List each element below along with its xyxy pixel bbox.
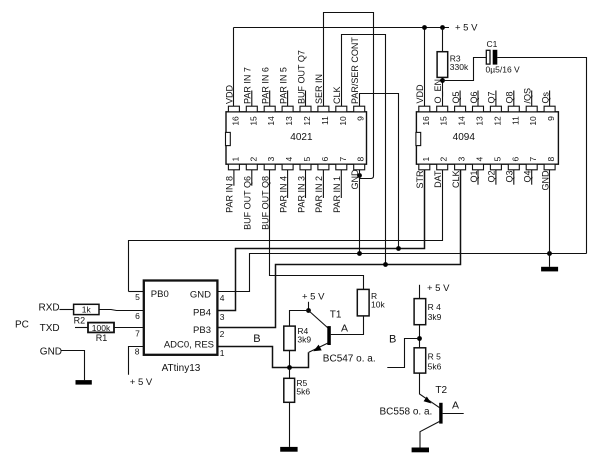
wire R5 to T2 emitter — [420, 373, 440, 408]
svg-text:10k: 10k — [371, 300, 385, 310]
svg-text:5k6: 5k6 — [296, 387, 310, 397]
wire stub pin 7 — [340, 170, 342, 198]
svg-text:R1: R1 — [96, 333, 108, 343]
svg-text:Q7: Q7 — [487, 91, 497, 103]
svg-text:7: 7 — [135, 329, 140, 339]
junction dot R4/R5/B rail — [287, 365, 292, 370]
transistor T1 base bar — [327, 326, 331, 345]
resistor R5 5k6 (T2) — [414, 348, 426, 373]
wire ATtiny pin 8 to +5V — [129, 347, 144, 375]
pin 13 box (4021 PAR IN 5) — [282, 106, 293, 112]
wire 4021 PAR/SER CONT to strobe rail — [360, 94, 399, 249]
svg-text:PAR IN 5: PAR IN 5 — [278, 67, 288, 104]
transistor Q1 T1 BC547: collector diagonal — [309, 311, 329, 329]
wire stub pin 2 — [251, 170, 253, 186]
svg-text:8: 8 — [135, 346, 140, 356]
wire R4 to B rail — [289, 351, 291, 368]
pin 11 box (4021 SER IN) — [318, 106, 329, 112]
svg-text:10: 10 — [528, 116, 538, 126]
svg-text:1k: 1k — [82, 304, 92, 314]
IC 4021 body — [226, 112, 367, 164]
wire RXD to R2 — [60, 309, 74, 311]
svg-text:BUF OUT Q6: BUF OUT Q6 — [243, 176, 253, 230]
wire stub pin 6 — [322, 170, 324, 198]
svg-text:9: 9 — [356, 116, 366, 121]
ground symbol T1 — [280, 447, 297, 452]
wire SER IN loop to GND — [324, 13, 374, 179]
svg-text:/QS: /QS — [523, 88, 533, 104]
svg-text:+ 5 V: + 5 V — [302, 291, 325, 302]
svg-text:Q1: Q1 — [469, 171, 479, 183]
svg-text:PB0: PB0 — [151, 289, 169, 300]
pin 2 box (4094 DAT) — [437, 164, 448, 170]
transistor T2 base bar — [439, 403, 442, 424]
svg-text:1: 1 — [220, 348, 225, 358]
svg-text:TXD: TXD — [40, 323, 60, 334]
svg-text:1: 1 — [421, 157, 431, 162]
svg-text:7: 7 — [338, 157, 348, 162]
svg-text:STR: STR — [415, 170, 425, 189]
wire ATtiny pin 1 ADC0 to node B rail — [217, 347, 308, 368]
resistor R4 3k9 (T1) — [284, 326, 295, 350]
wire stub pin 9 — [549, 91, 551, 107]
svg-text:T1: T1 — [330, 310, 342, 321]
svg-text:C1: C1 — [487, 39, 498, 49]
svg-text:PAR IN 1: PAR IN 1 — [332, 176, 342, 213]
junction dot 4094 GND at ground rail — [547, 251, 552, 256]
wire GND to ground — [61, 351, 85, 381]
junction dot SER IN at 4021 GND — [357, 173, 362, 178]
wire stub pin 5 — [495, 170, 497, 185]
svg-text:PAR IN 4: PAR IN 4 — [278, 176, 288, 213]
wire stub pin 1 — [233, 170, 235, 186]
svg-text:+ 5 V: + 5 V — [455, 22, 478, 33]
svg-text:12: 12 — [302, 116, 312, 126]
pin 9 box (4021 PAR/SER CONT) — [354, 106, 365, 112]
transistor T1 emitter arrow — [313, 345, 321, 352]
svg-text:BUF OUT Q7: BUF OUT Q7 — [296, 50, 306, 104]
svg-text:PAR IN 7: PAR IN 7 — [243, 67, 253, 104]
svg-text:4094: 4094 — [453, 132, 476, 143]
wire R5 to ground — [289, 402, 291, 447]
svg-text:Q6: Q6 — [469, 91, 479, 103]
svg-text:ADC0, RES: ADC0, RES — [164, 340, 214, 351]
pin 15 box (4021 PAR IN 7) — [246, 106, 257, 112]
IC 4094 notch — [416, 132, 421, 145]
svg-text:11: 11 — [510, 116, 520, 125]
svg-text:RXD: RXD — [39, 303, 60, 314]
pin 16 box (4021 VDD) — [228, 106, 239, 112]
svg-text:R2: R2 — [74, 315, 86, 325]
wire stub pin 7 — [531, 170, 533, 185]
pin 7 box (4021 PAR IN 1) — [336, 164, 347, 170]
svg-text:8: 8 — [546, 157, 556, 162]
resistor R5 5k6 (T1) — [289, 368, 291, 379]
junction dot T1 collector / R4 — [306, 308, 311, 313]
ground symbol 4094 — [541, 267, 558, 272]
svg-text:T2: T2 — [435, 385, 447, 396]
pin 2 box (4021 BUF OUT Q6) — [246, 164, 257, 170]
wire stub pin 12 — [495, 91, 497, 107]
capacitor C1 right plate (polarized) — [493, 50, 498, 65]
resistor R 10k — [357, 289, 369, 316]
svg-text:5: 5 — [302, 157, 312, 162]
wire R3 to O_EN pin 15 — [442, 77, 444, 106]
svg-text:3k9: 3k9 — [428, 312, 442, 322]
wire stub pin 12 — [305, 91, 307, 107]
transistor T1 emitter diagonal — [309, 343, 328, 352]
svg-text:CLK: CLK — [451, 171, 461, 189]
svg-text:VDD: VDD — [415, 84, 425, 104]
wire ground rail ATtiny GND to 4094 GND — [217, 254, 586, 292]
svg-text:A: A — [341, 323, 348, 335]
svg-text:10: 10 — [338, 116, 348, 126]
wire 4021 BUF OUT Q8 pin 3 down — [270, 170, 364, 290]
svg-text:7: 7 — [528, 157, 538, 162]
svg-text:14: 14 — [457, 116, 467, 126]
svg-text:11: 11 — [320, 116, 330, 125]
wire stub pin 14 — [269, 91, 271, 107]
svg-text:8: 8 — [356, 157, 366, 162]
pin 10 box (4094 /QS) — [526, 106, 537, 112]
junction dot 4021 GND at ground rail — [357, 251, 362, 256]
svg-text:6: 6 — [320, 157, 330, 162]
IC 4094 body — [416, 112, 558, 164]
pin 16 box (4094 VDD) — [419, 106, 430, 112]
junction dot R3 bottom / O_EN / C1 — [440, 78, 445, 83]
svg-text:13: 13 — [284, 116, 294, 126]
svg-text:Qs: Qs — [540, 91, 550, 103]
ground symbol T2 — [412, 448, 429, 453]
svg-text:BC558 o. a.: BC558 o. a. — [380, 407, 433, 418]
pin 14 box (4094 Q5) — [455, 106, 466, 112]
wire stub pin 10 — [531, 91, 533, 107]
wire strobe rail PB4 to PAR/SER CONT and 4094 STR — [217, 170, 424, 311]
svg-text:13: 13 — [475, 116, 485, 126]
svg-text:GND: GND — [190, 290, 211, 301]
svg-text:GND: GND — [540, 170, 550, 191]
svg-text:6: 6 — [135, 311, 140, 321]
svg-text:Q4: Q4 — [523, 171, 533, 183]
svg-text:15: 15 — [248, 116, 258, 126]
resistor R4 3k9 (T2) — [414, 299, 426, 325]
svg-text:6: 6 — [510, 157, 520, 162]
wire 4021 VDD to +5V — [233, 28, 235, 107]
svg-text:4: 4 — [475, 157, 485, 162]
svg-text:3k9: 3k9 — [297, 334, 311, 344]
wire R3 junction to C1 left plate — [443, 58, 487, 81]
pin 14 box (4021 PAR IN 6) — [264, 106, 275, 112]
svg-text:PC: PC — [15, 320, 29, 331]
svg-text:15: 15 — [439, 116, 449, 126]
svg-text:R 5: R 5 — [428, 351, 442, 361]
wire 4094 GND pin to ground — [549, 170, 551, 267]
svg-text:2: 2 — [220, 329, 225, 339]
svg-text:1: 1 — [230, 157, 240, 162]
wire +5V to R3 — [442, 28, 444, 52]
svg-text:0µ5/16 V: 0µ5/16 V — [486, 64, 521, 74]
svg-text:PAR/SER CONT: PAR/SER CONT — [350, 37, 360, 104]
svg-text:5: 5 — [492, 157, 502, 162]
junction dot node B (T2) — [417, 336, 422, 341]
pin 4 box (4021 PAR IN 4) — [282, 164, 293, 170]
wire 4021 GND down to ground rail — [359, 170, 361, 254]
pin 12 box (4094 Q7) — [490, 106, 501, 112]
wire stub pin 4 — [477, 170, 479, 185]
svg-text:CLK: CLK — [332, 86, 342, 104]
wire 4021 CLK to clock rail — [342, 35, 386, 265]
svg-text:100k: 100k — [92, 323, 111, 333]
svg-text:+ 5 V: + 5 V — [427, 283, 450, 294]
svg-text:ATtiny13: ATtiny13 — [162, 363, 201, 374]
transistor Q2 T2 BC558 emitter arrow — [424, 397, 432, 404]
svg-text:PAR IN 8: PAR IN 8 — [225, 176, 235, 213]
junction dot 4094 VDD at +5V rail — [422, 25, 427, 30]
microcontroller U3 ATtiny13 — [144, 281, 218, 355]
wire stub pin 13 — [477, 91, 479, 107]
IC 4021 notch — [226, 132, 231, 145]
pin 8 box (4094 GND) — [544, 164, 555, 170]
pin 15 box (4094 O_EN) — [437, 106, 448, 112]
junction dot strobe rail — [396, 246, 401, 251]
wire data rail PB0 to 4094 DAT — [129, 170, 443, 292]
svg-text:A: A — [452, 399, 459, 411]
svg-text:Q8: Q8 — [505, 91, 515, 103]
svg-text:B: B — [253, 333, 260, 345]
svg-text:GND: GND — [40, 347, 62, 358]
svg-text:330k: 330k — [450, 62, 469, 72]
svg-text:BC547 o. a.: BC547 o. a. — [323, 354, 376, 365]
resistor R2 1k — [74, 304, 99, 314]
svg-text:Q3: Q3 — [505, 171, 515, 183]
wire +5V rail top — [234, 27, 450, 29]
wire stub pin 15 — [251, 91, 253, 107]
wire stub pin 6 — [513, 170, 515, 185]
resistor R3 330k — [437, 52, 448, 78]
pin 7 box (4094 Q4) — [526, 164, 537, 170]
wire R4 to R5 junction (T2) — [419, 325, 421, 348]
svg-text:3: 3 — [220, 312, 225, 322]
pin 1 box (4021 PAR IN 8) — [228, 164, 239, 170]
wire +5V junction to R4 — [290, 311, 309, 327]
svg-text:PB4: PB4 — [193, 307, 211, 318]
wire TXD to R1 — [75, 327, 88, 329]
svg-text:PAR IN 6: PAR IN 6 — [261, 67, 271, 104]
svg-text:3: 3 — [457, 157, 467, 162]
pin 5 box (4094 Q2) — [490, 164, 501, 170]
svg-text:2: 2 — [439, 157, 449, 162]
wire +5V to T1 collector junction — [308, 302, 310, 311]
svg-text:5: 5 — [135, 292, 140, 302]
svg-text:2: 2 — [248, 157, 258, 162]
pin 6 box (4094 Q3) — [508, 164, 519, 170]
pin 3 box (4094 CLK) — [455, 164, 466, 170]
pin 4 box (4094 Q1) — [473, 164, 484, 170]
pin 10 box (4021 CLK) — [336, 106, 347, 112]
svg-text:Q2: Q2 — [487, 171, 497, 183]
svg-text:4021: 4021 — [290, 132, 313, 143]
pin 12 box (4021 BUF OUT Q7) — [300, 106, 311, 112]
svg-text:PAR IN 3: PAR IN 3 — [296, 176, 306, 213]
wire R1 to ATtiny pin 7 — [114, 327, 144, 329]
wire C1 right plate to ground rail — [497, 58, 586, 254]
wire node B stub (T2) — [387, 339, 419, 368]
svg-text:16: 16 — [230, 116, 240, 126]
wire clock rail PB3 to 4021 CLK and 4094 CLK — [217, 170, 460, 328]
pin 13 box (4094 Q6) — [473, 106, 484, 112]
pin 8 box (4021 GND) — [354, 164, 365, 170]
wire +5V to R4 (T2) — [419, 285, 421, 299]
wire R2 to ATtiny pin 6 — [99, 310, 144, 311]
junction dot R3 at +5V rail — [440, 25, 445, 30]
wire T2 base to node A — [443, 413, 464, 415]
wire stub pin 14 — [459, 91, 461, 107]
svg-text:16: 16 — [421, 116, 431, 126]
pin 5 box (4021 PAR IN 3) — [300, 164, 311, 170]
svg-text:9: 9 — [546, 116, 556, 121]
pin 11 box (4094 Q8) — [508, 106, 519, 112]
pin 3 box (4021 BUF OUT Q8) — [264, 164, 275, 170]
svg-text:5k6: 5k6 — [428, 361, 442, 371]
svg-text:R 4: R 4 — [428, 302, 442, 312]
svg-text:B: B — [389, 333, 396, 345]
svg-text:14: 14 — [266, 116, 276, 126]
wire R 10k to T1 base, node A — [331, 316, 364, 335]
wire stub pin 5 — [305, 170, 307, 198]
junction dot 4021 CLK at clock rail — [383, 262, 388, 267]
wire stub pin 4 — [287, 170, 289, 198]
svg-text:3: 3 — [266, 157, 276, 162]
svg-text:12: 12 — [492, 116, 502, 126]
svg-text:PB3: PB3 — [193, 325, 211, 336]
svg-text:+ 5 V: + 5 V — [130, 377, 153, 388]
svg-text:Q5: Q5 — [451, 91, 461, 103]
pin 9 box (4094 Qs) — [544, 106, 555, 112]
svg-text:4: 4 — [220, 293, 225, 303]
transistor T2 collector diagonal to ground — [420, 422, 439, 448]
svg-text:SER IN: SER IN — [314, 74, 324, 104]
svg-text:DAT: DAT — [433, 170, 443, 188]
wire stub pin 11 — [513, 91, 515, 107]
svg-text:4: 4 — [284, 157, 294, 162]
ground symbol PC — [76, 380, 92, 385]
wire 4094 VDD to +5V — [424, 28, 426, 107]
svg-text:GND: GND — [350, 169, 360, 190]
pin 1 box (4094 STR) — [419, 164, 430, 170]
capacitor C1 0u5/16V left plate — [486, 50, 490, 64]
wire stub pin 13 — [287, 91, 289, 107]
resistor R1 100k — [88, 323, 114, 333]
svg-text:PAR IN 2: PAR IN 2 — [314, 176, 324, 213]
pin 6 box (4021 PAR IN 2) — [318, 164, 329, 170]
